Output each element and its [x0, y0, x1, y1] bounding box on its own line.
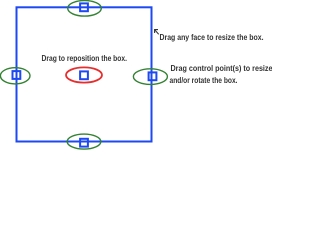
svg-text:Drag any face to resize the bo: Drag any face to resize the box. [160, 32, 264, 42]
red ellipse around center handle [66, 67, 102, 82]
svg-text:Drag control point(s) to resiz: Drag control point(s) to resize [171, 63, 273, 73]
handle left (blue square) [13, 71, 21, 79]
green ellipse around top handle [68, 1, 102, 17]
green ellipse around left handle [0, 68, 30, 84]
box outline (blue rectangle) [17, 7, 152, 141]
handle top (blue square) [80, 3, 88, 11]
handle bottom (blue square) [80, 139, 88, 147]
green ellipse around bottom handle [67, 134, 101, 149]
svg-text:and/or rotate the box.: and/or rotate the box. [170, 75, 238, 85]
handle center (blue square) [80, 71, 88, 79]
green ellipse around right handle [133, 69, 167, 85]
arrow pointing to box right edge (northwest arrow) [155, 30, 159, 35]
svg-text:Drag to reposition the box.: Drag to reposition the box. [42, 53, 128, 63]
handle right (blue square) [149, 72, 157, 80]
